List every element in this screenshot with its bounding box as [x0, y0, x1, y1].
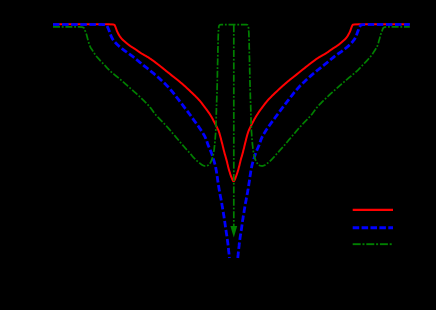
legend: blue dashed sample line: [353, 226, 393, 229]
legend: green dash-dot sample line: [353, 243, 393, 245]
green vertical marker line (dash-dot) at center frequency: [233, 25, 235, 226]
blue curve (dashed, deep notch clipped at bottom axis): [53, 25, 410, 259]
red curve (solid notch): [53, 24, 410, 181]
green arrowhead pointing down: [230, 226, 237, 238]
legend: red solid sample line: [353, 209, 393, 211]
green curve (dash-dot, EIT profile with central transparency peak): [53, 25, 410, 166]
